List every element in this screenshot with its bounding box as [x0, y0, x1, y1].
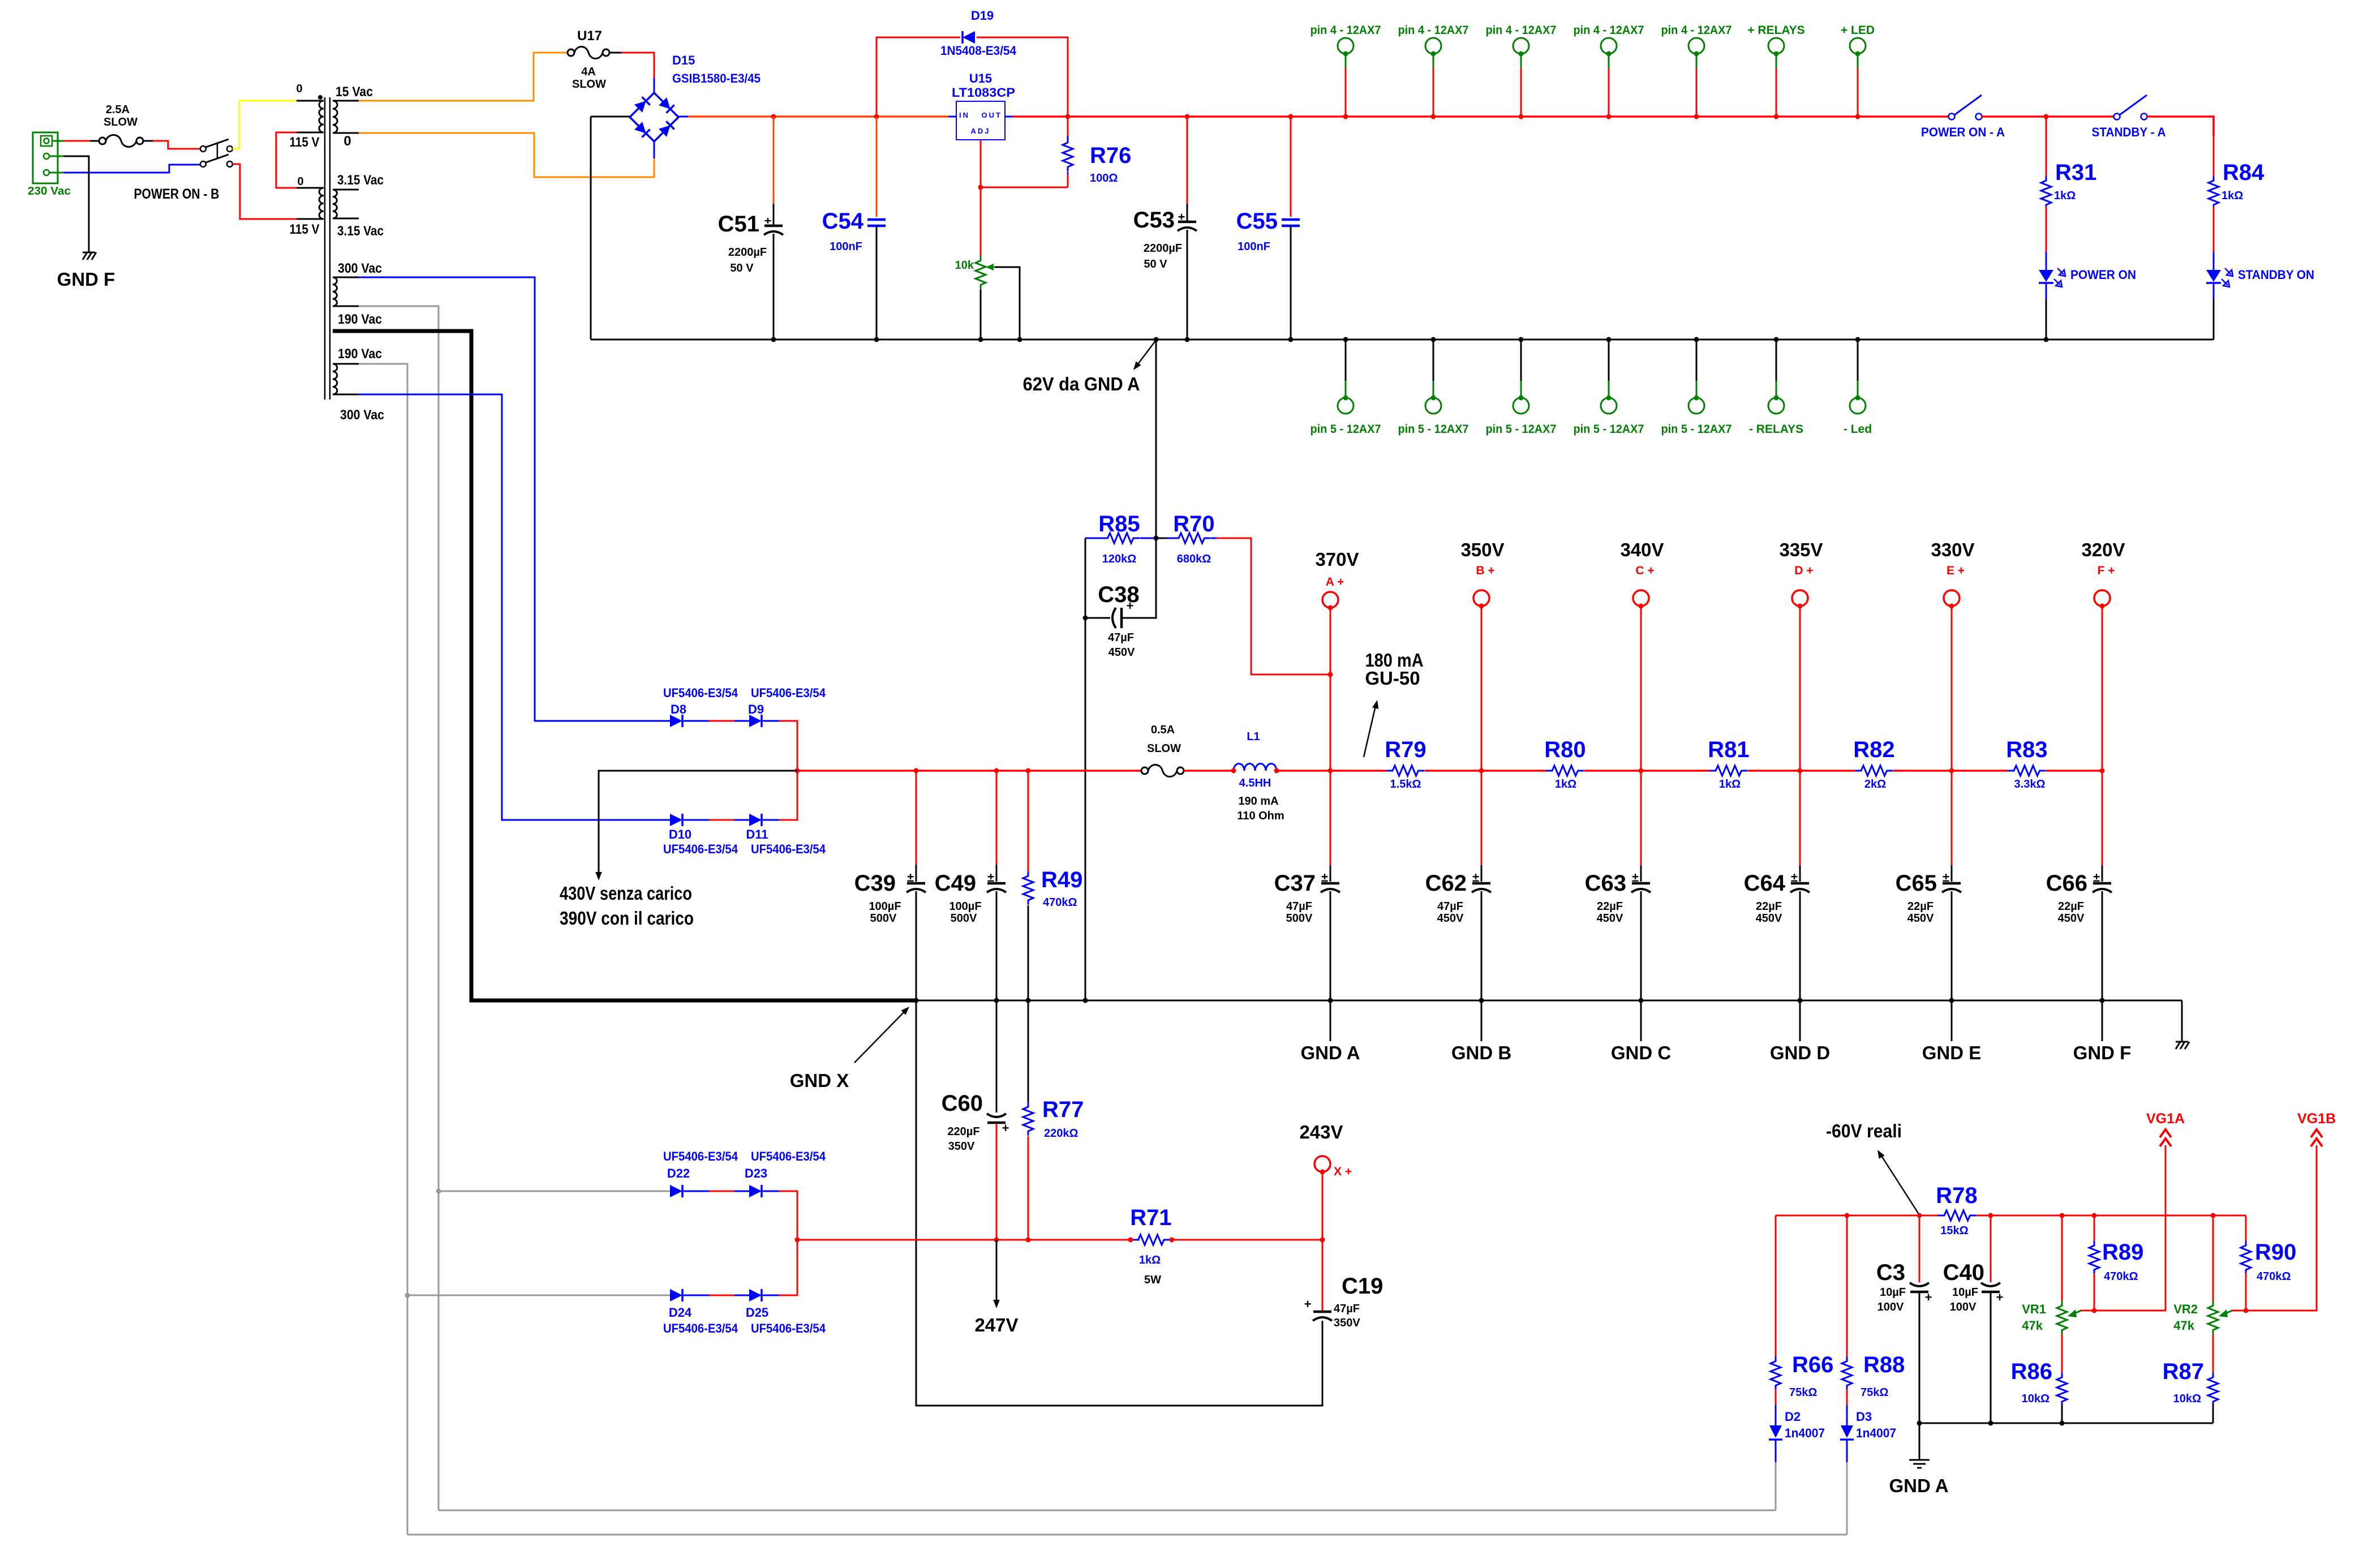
node IN junction C51 [771, 114, 776, 119]
svg-text:pin 4 - 12AX7: pin 4 - 12AX7 [1661, 24, 1732, 37]
diode D19 1N5408-E3/54 [940, 8, 1017, 58]
svg-text:220kΩ: 220kΩ [1044, 1127, 1079, 1140]
node rail junction [1694, 114, 1699, 119]
svg-text:500V: 500V [1286, 912, 1313, 925]
svg-text:C37: C37 [1274, 871, 1316, 896]
transformer T1 primary winding 2 (0-115V) [290, 175, 324, 237]
node wiper B junction [2244, 1308, 2249, 1313]
node A+/R70 junction [1328, 672, 1333, 677]
ground GND A (bias) [1889, 1423, 1948, 1496]
svg-text:D2: D2 [1785, 1410, 1801, 1424]
wire cap to GND bus [2102, 891, 2103, 1000]
svg-text:22µF: 22µF [1756, 900, 1782, 913]
svg-text:±: ± [987, 870, 994, 884]
terminal VG1B [2297, 1111, 2336, 1146]
svg-text:SLOW: SLOW [1147, 742, 1181, 755]
node -60V rail junction [2092, 1213, 2097, 1218]
resistor R31 1k [2041, 117, 2096, 209]
output terminal D + 335V [1779, 539, 1823, 609]
svg-text:GND F: GND F [57, 269, 115, 290]
resistor R89 470k [2089, 1215, 2143, 1311]
wire R84 to LED [2213, 207, 2215, 252]
node GND bus junction [1798, 998, 1803, 1003]
svg-text:62V da GND A: 62V da GND A [1023, 373, 1140, 394]
svg-text:1kΩ: 1kΩ [1139, 1254, 1161, 1266]
svg-text:L1: L1 [1247, 731, 1260, 743]
resistor R87 10k [2163, 1359, 2218, 1406]
terminal pin 4 - 12AX7 (top, x=2998) [1661, 24, 1732, 117]
node rail junction x=3449 [1949, 768, 1954, 774]
transformer T1 secondary 15 Vac winding [333, 84, 373, 149]
terminal + LED (top, x=3283) [1841, 24, 1875, 117]
svg-text:D +: D + [1794, 564, 1813, 577]
capacitor C62 47µF 450V [1425, 870, 1491, 925]
node X junction [1320, 1238, 1325, 1243]
wire F + down to rail [2102, 606, 2103, 771]
node wiper A junction [2092, 1308, 2097, 1313]
terminal pin 4 - 12AX7 (top, x=2688) [1486, 24, 1557, 117]
wire OUT to rail [1005, 116, 1013, 118]
svg-text:GND F: GND F [2073, 1042, 2132, 1063]
svg-text:±: ± [2093, 870, 2100, 884]
wire 300Vac lower to D10 (blue) [359, 394, 670, 820]
node GND bus junction [1328, 998, 1333, 1003]
svg-text:C55: C55 [1236, 209, 1278, 234]
capacitor C39 100uF 500V [854, 771, 926, 925]
svg-text:450V: 450V [1756, 912, 1782, 925]
resistor R88 75k [1842, 1215, 1905, 1405]
svg-text:D10: D10 [669, 827, 691, 841]
capacitor C60 220uF 350V [942, 1000, 1009, 1240]
capacitor C3 10uF 100V [1876, 1215, 1932, 1423]
wire D23 to node [763, 1191, 779, 1192]
svg-text:C60: C60 [942, 1091, 983, 1116]
node -60V rail junction [1917, 1213, 1922, 1218]
svg-text:3.3kΩ: 3.3kΩ [2014, 778, 2046, 791]
svg-text:R49: R49 [1041, 867, 1082, 892]
svg-text:320V: 320V [2081, 539, 2125, 560]
svg-text:C63: C63 [1585, 871, 1626, 896]
svg-text:+ LED: + LED [1841, 24, 1875, 37]
wire C49 to GND bus [996, 891, 998, 1000]
wire switch A to junction [1982, 115, 2046, 118]
svg-text:UF5406-E3/54: UF5406-E3/54 [663, 1321, 738, 1335]
wire R87 to bus [2212, 1404, 2214, 1423]
svg-text:R86: R86 [2011, 1359, 2052, 1384]
svg-text:247V: 247V [974, 1314, 1018, 1335]
svg-text:470kΩ: 470kΩ [2104, 1270, 2138, 1283]
svg-text:UF5406-E3/54: UF5406-E3/54 [751, 1149, 826, 1163]
annotation 430V/390V [560, 771, 797, 929]
wire R70 to A+ node [1217, 538, 1330, 675]
svg-text:+: + [1996, 1290, 2004, 1304]
svg-text:STANDBY ON: STANDBY ON [2238, 268, 2314, 282]
svg-text:2200µF: 2200µF [728, 246, 767, 259]
svg-text:pin 5 - 12AX7: pin 5 - 12AX7 [1574, 423, 1644, 436]
svg-text:R82: R82 [1853, 737, 1894, 762]
resistor R79 1.5k [1330, 737, 1481, 791]
wire C38 left down to GND bus [1085, 618, 1086, 1000]
resistor R70 680k [1156, 512, 1217, 565]
svg-text:C40: C40 [1943, 1260, 1984, 1285]
wire switch to primary 115V (red) [233, 164, 297, 219]
output terminal C + 340V [1620, 539, 1664, 609]
node GND bus junction [1479, 998, 1484, 1003]
svg-text:B +: B + [1476, 564, 1494, 577]
diode D24 UF5406-E3/54 [663, 1289, 738, 1335]
svg-text:230 Vac: 230 Vac [28, 185, 71, 197]
terminal pin 5 - 12AX7 (bottom, x=2843) [1574, 340, 1644, 436]
svg-text:100Ω: 100Ω [1090, 172, 1118, 184]
wire cap to GND bus [1330, 891, 1331, 1000]
capacitor C53 2200uF 50V [1133, 117, 1197, 340]
svg-text:R31: R31 [2055, 160, 2096, 185]
svg-text:190 Vac: 190 Vac [338, 346, 382, 362]
resistor R90 470k [2241, 1215, 2296, 1311]
svg-text:1kΩ: 1kΩ [1555, 778, 1576, 791]
svg-text:±: ± [1472, 870, 1479, 884]
node rail junction [1431, 114, 1436, 119]
terminal pin 5 - 12AX7 (bottom, x=2533) [1398, 340, 1469, 436]
svg-text:100nF: 100nF [830, 240, 862, 253]
svg-text:R81: R81 [1708, 737, 1749, 762]
svg-text:190 mA: 190 mA [1238, 795, 1278, 807]
svg-text:335V: 335V [1779, 539, 1823, 560]
svg-text:190 Vac: 190 Vac [338, 312, 382, 327]
svg-text:350V: 350V [948, 1140, 975, 1153]
wire bridge minus to ground bus [591, 116, 630, 118]
gray bus lower [407, 1534, 1847, 1536]
svg-text:pin 5 - 12AX7: pin 5 - 12AX7 [1661, 423, 1732, 436]
transformer T1 secondary HV winding lower (190/300 Vac) [333, 364, 384, 423]
wire rail to capacitor C65 [1951, 771, 1953, 865]
wire -60V rail [1776, 1215, 1939, 1217]
svg-text:A +: A + [1326, 575, 1344, 588]
svg-text:VR2: VR2 [2173, 1302, 2198, 1316]
node HV+ junction [795, 768, 800, 774]
svg-text:D3: D3 [1856, 1410, 1872, 1424]
svg-text:GSIB1580-E3/45: GSIB1580-E3/45 [672, 71, 761, 85]
svg-text:D9: D9 [748, 702, 764, 716]
wire D9 to + node [763, 720, 779, 722]
svg-text:R78: R78 [1936, 1183, 1977, 1208]
node rail junction C55 [1288, 114, 1294, 119]
annotation 247V [974, 1240, 1018, 1335]
svg-text:F +: F + [2098, 564, 2115, 577]
svg-text:pin 5 - 12AX7: pin 5 - 12AX7 [1486, 423, 1557, 436]
svg-text:C53: C53 [1133, 208, 1175, 233]
node -60V rail junction [1845, 1213, 1850, 1218]
svg-text:GND X: GND X [790, 1070, 849, 1091]
svg-text:pin 4 - 12AX7: pin 4 - 12AX7 [1574, 24, 1644, 37]
wire VR2 to R87 [2212, 1334, 2214, 1375]
bias ground bus [1919, 1423, 2213, 1424]
wire ADJ-R76 bottom link [981, 187, 1068, 188]
svg-text:100µF: 100µF [869, 900, 901, 913]
svg-text:15 Vac: 15 Vac [336, 84, 373, 100]
svg-text:300 Vac: 300 Vac [340, 407, 384, 423]
capacitor C55 100nF [1236, 117, 1300, 340]
node rail junction C53 [1185, 114, 1190, 119]
capacitor C54 100nF [822, 117, 886, 340]
wire cap to GND bus [1951, 891, 1953, 1000]
svg-text:- RELAYS: - RELAYS [1749, 423, 1803, 436]
annotation -60V reali [1826, 1120, 1918, 1213]
node rail junction x=2618 [1479, 768, 1484, 774]
terminal - Led (bottom, x=3283) [1844, 340, 1872, 436]
svg-text:+: + [1304, 1297, 1312, 1311]
wire 190Vac upper tap (gray) [359, 306, 439, 1510]
svg-text:47µF: 47µF [1334, 1303, 1360, 1315]
svg-text:-60V reali: -60V reali [1826, 1120, 1902, 1141]
label GND E [1951, 1000, 1953, 1041]
terminal VG1A [2146, 1111, 2185, 1146]
node C38 left junction [1083, 616, 1088, 621]
label GND B [1481, 1000, 1483, 1041]
node rail junction [1343, 114, 1348, 119]
svg-text:47µF: 47µF [1108, 632, 1134, 644]
wire D24-D25 [684, 1295, 709, 1296]
svg-text:R89: R89 [2102, 1240, 2143, 1265]
svg-text:50 V: 50 V [730, 262, 754, 274]
terminal pin 4 - 12AX7 (top, x=2843) [1574, 24, 1644, 117]
wire D19 right to OUT node [977, 37, 1068, 117]
svg-text:±: ± [1943, 870, 1949, 884]
svg-text:470kΩ: 470kΩ [1043, 896, 1077, 909]
svg-text:22µF: 22µF [2058, 900, 2084, 913]
label GND A [1330, 1000, 1331, 1041]
node GND bus junction [1639, 998, 1644, 1003]
terminal + RELAYS (top, x=3139) [1747, 24, 1804, 117]
svg-text:D25: D25 [746, 1305, 768, 1320]
wire C + down to rail [1640, 606, 1642, 771]
svg-text:50 V: 50 V [1144, 258, 1167, 270]
diode D22 UF5406-E3/54 [663, 1149, 738, 1197]
svg-text:pin 4 - 12AX7: pin 4 - 12AX7 [1486, 24, 1557, 37]
wire 0 to bridge bottom (orange) [359, 133, 654, 177]
svg-text:R80: R80 [1544, 737, 1586, 762]
potentiometer VR2 47k [2173, 1215, 2245, 1335]
svg-text:D11: D11 [746, 827, 768, 841]
terminal - RELAYS (bottom, x=3139) [1749, 340, 1803, 436]
inductor L1 4.5HH [1231, 731, 1284, 822]
LED POWER ON [2039, 252, 2136, 299]
terminal pin 5 - 12AX7 (bottom, x=2998) [1661, 340, 1732, 436]
svg-text:U17: U17 [577, 28, 602, 44]
resistor R81 1k [1641, 737, 1800, 791]
wire LED to bus [2046, 299, 2047, 340]
node GND bus junction [2100, 998, 2105, 1003]
svg-text:1n4007: 1n4007 [1856, 1426, 1896, 1440]
svg-text:UF5406-E3/54: UF5406-E3/54 [663, 842, 738, 856]
wire fuse to L1 [1184, 770, 1234, 772]
annotation 62V da GND A [1023, 340, 1157, 394]
wire switch to primary 0 (yellow) [233, 101, 297, 149]
wire R86 to bus [2061, 1404, 2063, 1423]
wire 190Vac lower tap (gray) [359, 364, 407, 1535]
svg-text:1kΩ: 1kΩ [2054, 190, 2076, 202]
node rail junction [1519, 114, 1524, 119]
svg-text:±: ± [1791, 870, 1798, 884]
wire wiper row to VG1B [2246, 1145, 2317, 1311]
svg-text:15kΩ: 15kΩ [1940, 1225, 1968, 1237]
node rail R49 [1026, 768, 1031, 774]
svg-text:C64: C64 [1744, 871, 1786, 896]
node OUT junction R76 [1065, 114, 1071, 119]
svg-text:VR1: VR1 [2022, 1302, 2046, 1316]
node gray tap D22 [436, 1189, 441, 1194]
wire rail to capacitor C62 [1481, 771, 1483, 865]
svg-text:pin 5 - 12AX7: pin 5 - 12AX7 [1311, 423, 1381, 436]
svg-text:0.5A: 0.5A [1151, 724, 1175, 736]
svg-text:R88: R88 [1863, 1352, 1905, 1377]
svg-text:22µF: 22µF [1597, 900, 1623, 913]
svg-text:OUT: OUT [982, 111, 1002, 119]
svg-text:U15: U15 [969, 71, 992, 85]
svg-text:GND D: GND D [1770, 1042, 1830, 1063]
wire E + down to rail [1951, 606, 1953, 771]
resistor R76 100ohm [1063, 117, 1131, 187]
svg-text:115 V: 115 V [290, 222, 320, 237]
svg-text:10kΩ: 10kΩ [2173, 1393, 2201, 1405]
LED STANDBY ON [2206, 252, 2314, 299]
svg-text:75kΩ: 75kΩ [1861, 1386, 1888, 1399]
resistor R80 1k [1481, 737, 1641, 791]
svg-text:2200µF: 2200µF [1144, 242, 1182, 255]
wire D19 left to IN node [877, 37, 960, 117]
svg-text:110 Ohm: 110 Ohm [1237, 810, 1284, 822]
svg-text:R76: R76 [1090, 143, 1131, 168]
resistor R86 10k [2011, 1359, 2067, 1406]
wire 300Vac upper to D8 (blue) [359, 277, 670, 721]
node GND bus junction [1949, 998, 1954, 1003]
svg-text:C39: C39 [854, 871, 896, 896]
node rail junction x=3715 [2100, 768, 2105, 774]
node IN junction C54 [874, 114, 879, 119]
svg-text:3.15 Vac: 3.15 Vac [337, 173, 384, 188]
capacitor C66 22µF 450V [2046, 870, 2112, 925]
capacitor C49 100uF 500V [935, 771, 1006, 925]
svg-text:2kΩ: 2kΩ [1864, 778, 1886, 791]
annotation GND X [790, 1007, 909, 1091]
node rail junction [1774, 114, 1779, 119]
node rail junction [1606, 114, 1612, 119]
ground earth (right) [2176, 1000, 2189, 1049]
svg-text:330V: 330V [1931, 539, 1974, 560]
svg-text:GND A: GND A [1889, 1475, 1948, 1496]
wire rail to capacitor C66 [2102, 771, 2103, 865]
wire gray to D22 [439, 1191, 670, 1192]
wire wiper row to VG1A [2094, 1145, 2166, 1311]
node junction R31 branch [2044, 114, 2049, 119]
svg-text:4.5HH: 4.5HH [1239, 777, 1271, 789]
fuse F1 2.5A SLOW [99, 104, 143, 147]
svg-text:100V: 100V [1950, 1301, 1977, 1313]
svg-text:R77: R77 [1042, 1097, 1084, 1122]
ground GND F [57, 252, 115, 290]
capacitor C51 2200uF 50V [718, 117, 783, 340]
ground bus 62V row [591, 339, 2214, 341]
svg-text:10k: 10k [955, 259, 974, 272]
svg-text:R90: R90 [2255, 1240, 2296, 1265]
svg-text:1kΩ: 1kΩ [2222, 190, 2243, 202]
svg-text:C65: C65 [1896, 871, 1937, 896]
node -60V rail junction [2060, 1213, 2065, 1218]
wire bridge plus to U15 IN (orangered) [678, 116, 688, 118]
diode D23 UF5406-E3/54 [745, 1149, 826, 1197]
svg-text:X +: X + [1334, 1165, 1352, 1178]
wire 247V rail [797, 1239, 1140, 1241]
svg-text:R87: R87 [2163, 1359, 2204, 1384]
capacitor C63 22µF 450V [1585, 870, 1651, 925]
svg-text:±: ± [907, 870, 914, 884]
resistor R83 3.3k [1952, 737, 2102, 791]
svg-text:500V: 500V [870, 912, 897, 925]
svg-text:47k: 47k [2173, 1318, 2194, 1333]
diode D10 UF5406-E3/54 [663, 814, 738, 856]
svg-text:100µF: 100µF [949, 900, 981, 913]
svg-text:D22: D22 [667, 1166, 690, 1180]
capacitor C38 47uF 450V [1085, 538, 1156, 659]
svg-text:VG1A: VG1A [2146, 1111, 2185, 1127]
svg-text:2.5A: 2.5A [106, 104, 130, 116]
wire D11 to + node [763, 819, 779, 821]
capacitor C65 22µF 450V [1896, 870, 1961, 925]
switch S3 STANDBY - A [2092, 95, 2166, 139]
wire fuse to switch [143, 140, 153, 142]
potentiometer 10k [955, 256, 1020, 340]
svg-text:R71: R71 [1130, 1205, 1171, 1230]
svg-text:300 Vac: 300 Vac [338, 261, 382, 276]
transformer T1 primary winding 1 (0-115V) [290, 83, 324, 150]
output terminal F + 320V [2081, 539, 2125, 609]
wire R31 to LED [2046, 207, 2047, 252]
wire GND X loop to C19 [916, 1000, 1322, 1406]
wire R71 to X+ [1172, 1239, 1322, 1241]
svg-text:243V: 243V [1299, 1122, 1343, 1142]
svg-text:1kΩ: 1kΩ [1719, 778, 1741, 791]
terminal pin 4 - 12AX7 (top, x=2378) [1311, 24, 1381, 117]
svg-text:+ RELAYS: + RELAYS [1747, 24, 1804, 37]
svg-text:+: + [1002, 1121, 1009, 1135]
svg-text:pin 5 - 12AX7: pin 5 - 12AX7 [1398, 423, 1469, 436]
wire ADJ down [980, 140, 982, 187]
resistor R71 1k 5W [1128, 1205, 1175, 1286]
svg-text:C66: C66 [2046, 871, 2087, 896]
svg-text:1.5kΩ: 1.5kΩ [1390, 778, 1421, 791]
svg-text:1N5408-E3/54: 1N5408-E3/54 [940, 44, 1017, 58]
svg-text:GND E: GND E [1922, 1042, 1982, 1063]
wire X+ down [1322, 1172, 1324, 1240]
terminal pin 5 - 12AX7 (bottom, x=2688) [1486, 340, 1557, 436]
transformer T1 secondary 3.15 Vac winding [333, 173, 384, 239]
node rail junction x=2351 [1328, 768, 1333, 774]
svg-text:STANDBY - A: STANDBY - A [2092, 125, 2166, 139]
svg-text:47µF: 47µF [1286, 900, 1312, 913]
wire cap to GND bus [1799, 891, 1801, 1000]
svg-text:47µF: 47µF [1437, 900, 1463, 913]
wire PE from connector to GND F [64, 156, 89, 252]
svg-text:E +: E + [1947, 564, 1965, 577]
svg-text:D23: D23 [745, 1166, 767, 1180]
wire rail to capacitor C64 [1799, 771, 1801, 865]
svg-text:IN: IN [959, 111, 970, 119]
wire D2 to gray bus [1775, 1462, 1777, 1510]
node rail C39 [914, 768, 919, 774]
svg-text:0: 0 [343, 134, 351, 149]
diode D9 UF5406-E3/54 [748, 686, 826, 727]
wire gray to D24 [407, 1295, 670, 1296]
